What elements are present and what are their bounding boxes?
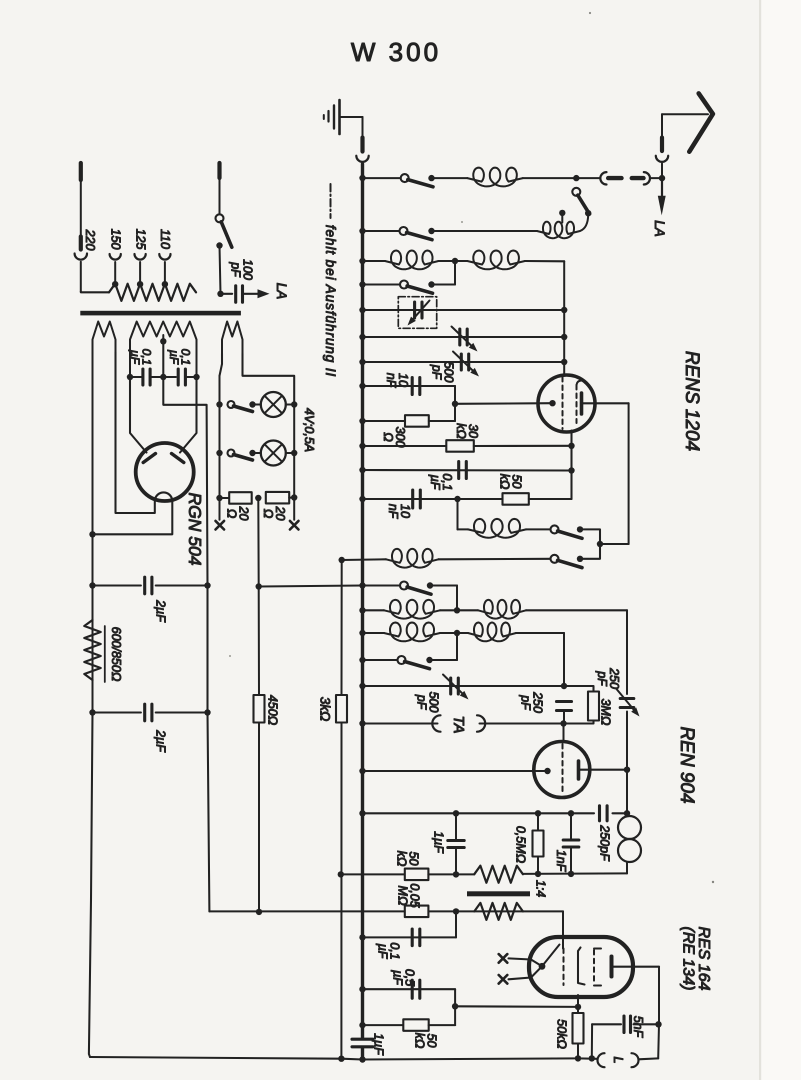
svg-text:4V;0,5A: 4V;0,5A bbox=[302, 408, 316, 452]
svg-text:220: 220 bbox=[83, 229, 97, 251]
svg-text:0,5MΩ: 0,5MΩ bbox=[514, 826, 528, 864]
svg-text:10nF: 10nF bbox=[384, 373, 410, 389]
svg-text:20Ω: 20Ω bbox=[261, 506, 287, 521]
svg-text:0,05MΩ: 0,05MΩ bbox=[395, 883, 421, 907]
svg-text:50kΩ: 50kΩ bbox=[555, 1019, 569, 1049]
svg-text:W 300: W 300 bbox=[351, 37, 441, 67]
svg-text:150: 150 bbox=[109, 229, 123, 250]
svg-text:1:4: 1:4 bbox=[534, 880, 548, 897]
svg-text:2µF: 2µF bbox=[154, 599, 168, 623]
svg-text:0,1µF: 0,1µF bbox=[167, 349, 193, 366]
svg-text:1µF: 1µF bbox=[432, 831, 446, 854]
svg-text:2µF: 2µF bbox=[154, 729, 168, 753]
svg-text:600/850Ω: 600/850Ω bbox=[109, 627, 123, 682]
svg-text:125: 125 bbox=[134, 229, 148, 250]
svg-text:10nF: 10nF bbox=[386, 504, 412, 520]
svg-text:3MΩ: 3MΩ bbox=[599, 699, 613, 726]
svg-text:250pF: 250pF bbox=[518, 691, 544, 713]
svg-text:RENS 1204: RENS 1204 bbox=[681, 351, 702, 451]
svg-text:5nF: 5nF bbox=[631, 1016, 645, 1039]
svg-text:50kΩ: 50kΩ bbox=[412, 1033, 438, 1049]
svg-text:RES 164(RE 134): RES 164(RE 134) bbox=[679, 926, 712, 990]
svg-text:250pF: 250pF bbox=[595, 667, 621, 689]
svg-text:0,5µF: 0,5µF bbox=[390, 969, 416, 986]
svg-text:fehlt bei Ausführung II: fehlt bei Ausführung II bbox=[323, 225, 338, 377]
svg-text:L: L bbox=[611, 1057, 625, 1064]
svg-text:450Ω: 450Ω bbox=[266, 695, 280, 726]
svg-text:1µF: 1µF bbox=[372, 1033, 386, 1056]
svg-text:50kΩ: 50kΩ bbox=[497, 474, 523, 490]
svg-text:1nF: 1nF bbox=[554, 850, 568, 873]
svg-text:RGN 504: RGN 504 bbox=[185, 493, 205, 566]
svg-text:0,1µF: 0,1µF bbox=[375, 942, 401, 959]
svg-text:REN 904: REN 904 bbox=[676, 726, 697, 803]
svg-text:3kΩ: 3kΩ bbox=[318, 697, 333, 722]
svg-text:TA: TA bbox=[450, 715, 467, 733]
svg-text:50kΩ: 50kΩ bbox=[394, 851, 420, 867]
svg-text:20Ω: 20Ω bbox=[224, 506, 250, 521]
svg-text:LA: LA bbox=[652, 220, 667, 237]
svg-text:30kΩ: 30kΩ bbox=[454, 423, 480, 439]
svg-text:110: 110 bbox=[158, 229, 172, 249]
svg-text:0,1µF: 0,1µF bbox=[128, 349, 154, 366]
svg-text:0,1µF: 0,1µF bbox=[428, 473, 454, 490]
svg-text:250pF: 250pF bbox=[598, 824, 612, 862]
svg-text:LA: LA bbox=[274, 283, 289, 300]
